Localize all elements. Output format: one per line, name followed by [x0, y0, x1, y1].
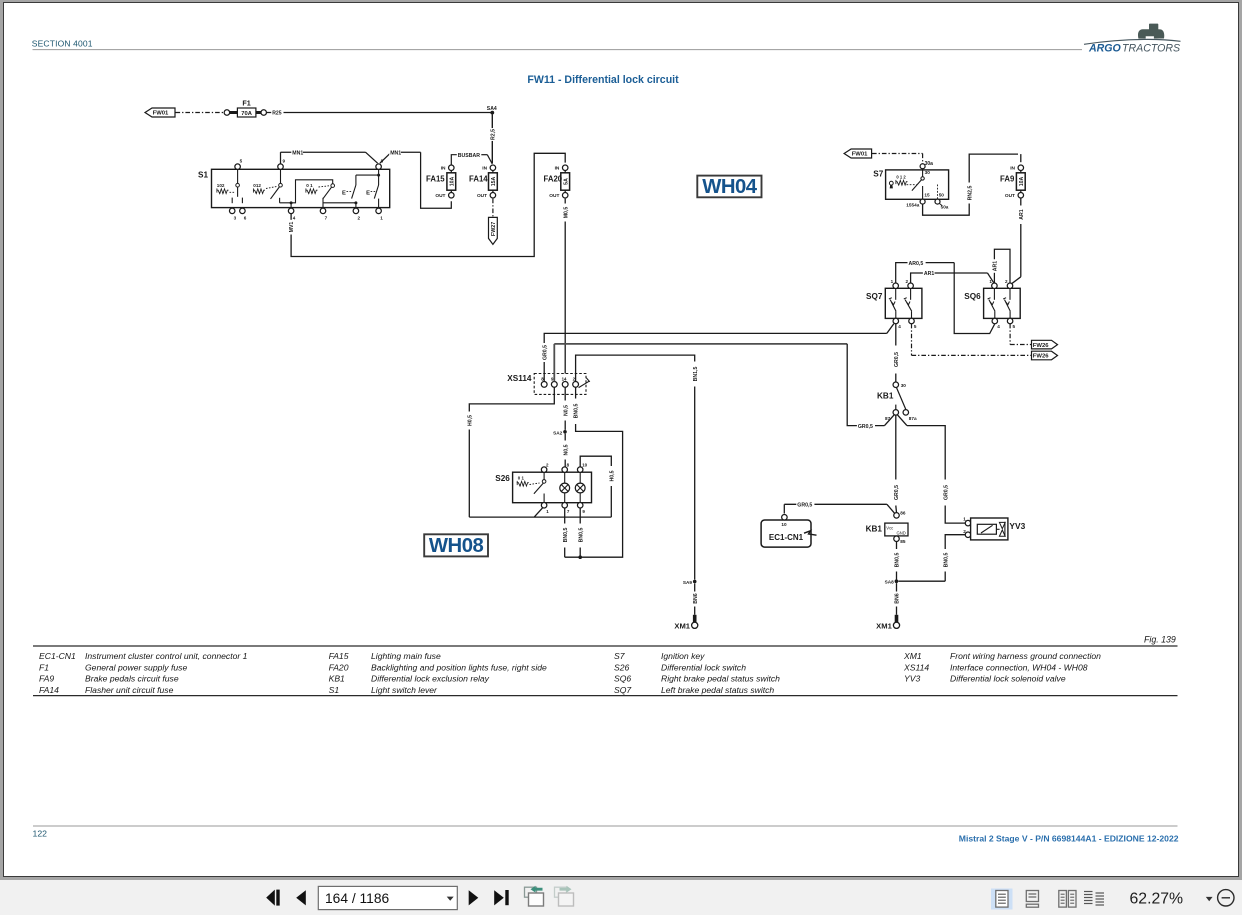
wire FA14 OUT to FW27 (dash-dot)	[492, 199, 494, 218]
XS114 pin 14	[562, 382, 568, 388]
svg-text:4: 4	[898, 324, 901, 329]
svg-text:0 1 2: 0 1 2	[896, 174, 906, 179]
node SA9	[693, 580, 697, 584]
SQ7 contact levers	[895, 289, 897, 300]
svg-text:Ignition key: Ignition key	[661, 651, 705, 661]
S1 pin 4	[288, 208, 294, 214]
wire AR0,5 SQ7 pin 1 to SQ6 pin 4	[896, 263, 955, 283]
svg-text:M0,5: M0,5	[563, 207, 569, 219]
toolbar continuous layout button	[1026, 891, 1038, 902]
svg-text:4: 4	[293, 215, 296, 220]
svg-text:OUT: OUT	[435, 193, 445, 199]
svg-text:General power supply fuse: General power supply fuse	[85, 662, 187, 672]
svg-text:BN0,5: BN0,5	[578, 528, 584, 543]
svg-text:E: E	[366, 191, 370, 197]
SQ6 contact levers	[993, 289, 995, 300]
svg-text:SECTION 4001: SECTION 4001	[32, 38, 93, 48]
svg-text:86: 86	[900, 510, 906, 515]
SQ6 pin 5	[1007, 318, 1013, 324]
relay KB1 terminal 87a	[903, 410, 909, 416]
wire BN0,5 XS114 pin 2 down to S26 lamps	[575, 387, 577, 398]
svg-text:XS114: XS114	[903, 662, 929, 672]
svg-text:S7: S7	[614, 651, 626, 661]
svg-text:SQ7: SQ7	[866, 292, 883, 301]
svg-text:1: 1	[380, 215, 383, 220]
svg-text:FA14: FA14	[469, 175, 488, 184]
svg-text:1554a: 1554a	[906, 203, 919, 208]
svg-text:70A: 70A	[241, 111, 252, 117]
svg-text:5: 5	[240, 158, 243, 163]
svg-text:Lighting main fuse: Lighting main fuse	[371, 651, 441, 661]
svg-text:YV3: YV3	[1009, 521, 1025, 531]
svg-text:3: 3	[234, 215, 237, 220]
svg-text:SA4: SA4	[487, 106, 497, 112]
SQ6 pin 1	[992, 283, 998, 289]
node SA8	[895, 579, 899, 583]
svg-text:Mistral 2 Stage V - P/N 669814: Mistral 2 Stage V - P/N 6698144A1 - EDIZ…	[959, 833, 1179, 843]
wire BN0,5 YV3 pin 2 to SA8	[898, 580, 945, 582]
connector flag FW26 lower	[1032, 351, 1058, 360]
svg-text:BN0,5: BN0,5	[574, 404, 580, 419]
svg-text:Fig. 139: Fig. 139	[1144, 634, 1176, 644]
svg-text:BN0,5: BN0,5	[943, 553, 949, 568]
svg-text:1: 1	[891, 279, 894, 284]
wire H0,5 XS114 pin 9 to S26	[469, 387, 554, 411]
svg-text:Backlighting and position ligh: Backlighting and position lights fuse, r…	[371, 662, 547, 672]
toolbar previous-view button	[525, 887, 537, 897]
fuse FA20 5A	[564, 165, 566, 173]
svg-text:GR0,5: GR0,5	[797, 503, 812, 509]
wire M0,5 from FA20 OUT to XS114 pin 14	[564, 199, 566, 204]
legend rule top	[33, 645, 1178, 647]
wire RN2,5 from S7 to FA9 IN	[923, 204, 970, 216]
svg-text:30a: 30a	[925, 161, 934, 167]
S26 pin 9	[577, 503, 583, 509]
toolbar facing layout button	[1059, 891, 1067, 908]
toolbar page number box	[318, 886, 457, 909]
svg-text:WH04: WH04	[702, 176, 758, 198]
svg-text:KB1: KB1	[877, 392, 894, 401]
svg-text:BUSBAR: BUSBAR	[458, 153, 480, 159]
SQ7 pin 5	[909, 318, 915, 324]
svg-text:5A: 5A	[563, 178, 569, 185]
svg-text:KB1: KB1	[866, 525, 883, 534]
PDF viewer bottom toolbar	[0, 880, 1242, 915]
svg-text:F1: F1	[242, 98, 250, 107]
wire MN1 from S1 pin 9 to S1 pin 8 and FA15	[281, 151, 366, 153]
svg-text:50a: 50a	[941, 205, 949, 210]
svg-text:Front wiring harness ground co: Front wiring harness ground connection	[950, 651, 1101, 661]
svg-text:10A: 10A	[449, 176, 455, 186]
S1 pin 9	[278, 164, 284, 170]
svg-text:Differential lock solenoid val: Differential lock solenoid valve	[950, 674, 1066, 684]
svg-text:2: 2	[358, 215, 361, 220]
wire MV1 from S1 pin 4	[290, 214, 292, 220]
svg-text:FW01: FW01	[852, 152, 868, 158]
svg-text:GR0,5: GR0,5	[894, 485, 900, 500]
svg-text:1: 1	[963, 517, 966, 522]
toolbar facing-continuous layout button	[1084, 891, 1093, 893]
svg-text:GR0,5: GR0,5	[858, 424, 873, 430]
svg-text:012: 012	[253, 183, 261, 188]
S26 lamp 1	[564, 472, 566, 483]
S1 internal bus from pin 8	[378, 169, 380, 175]
solenoid valve YV3	[965, 520, 971, 526]
svg-text:10: 10	[582, 462, 588, 467]
svg-text:GR0,5: GR0,5	[542, 345, 548, 360]
svg-text:FA14: FA14	[39, 685, 59, 695]
interface connector XS114	[534, 374, 586, 395]
ground XM1 right	[895, 615, 899, 622]
svg-text:IN: IN	[1010, 166, 1015, 172]
svg-text:30: 30	[925, 170, 931, 175]
svg-text:S1: S1	[329, 685, 340, 695]
svg-text:87a: 87a	[909, 416, 917, 421]
svg-text:Differential lock exclusion re: Differential lock exclusion relay	[371, 674, 490, 684]
svg-text:1: 1	[546, 509, 549, 514]
switch S1 body	[212, 169, 390, 207]
svg-text:SA9: SA9	[683, 580, 693, 585]
svg-text:FA9: FA9	[39, 674, 54, 684]
svg-text:S1: S1	[198, 170, 208, 179]
svg-text:S26: S26	[614, 662, 630, 672]
harness tag WH08	[424, 534, 488, 556]
svg-text:8: 8	[567, 462, 570, 467]
svg-text:EC1-CN1: EC1-CN1	[39, 651, 76, 661]
connector flag FW01 right	[844, 149, 872, 158]
svg-text:50: 50	[939, 192, 945, 197]
S26 pin 7	[562, 503, 568, 509]
svg-text:30: 30	[901, 383, 907, 388]
svg-text:10: 10	[781, 522, 787, 527]
XS114 switch symbol	[579, 381, 590, 387]
S26 pin 8	[562, 467, 568, 473]
toolbar last-page button	[494, 890, 504, 905]
svg-text:5: 5	[1013, 324, 1016, 329]
svg-text:GR0,5: GR0,5	[894, 352, 900, 367]
wire MN1 drop to FA15 OUT	[421, 152, 452, 208]
svg-text:YV3: YV3	[904, 674, 920, 684]
svg-text:5: 5	[914, 324, 917, 329]
wire BN0,5 KB1 85 to SA8	[896, 542, 898, 550]
wire R25	[266, 112, 271, 114]
svg-text:SA2: SA2	[553, 430, 563, 435]
relay coil KB1	[894, 513, 900, 519]
svg-text:Vcc: Vcc	[886, 525, 893, 530]
S26 lamp 2	[579, 472, 581, 483]
svg-text:FA20: FA20	[544, 175, 563, 184]
wire XS114 pin 9 riser	[553, 344, 555, 382]
relay KB1 terminal 87	[893, 410, 899, 416]
connector flag FW27 down	[489, 217, 498, 244]
svg-text:Light switch lever: Light switch lever	[371, 685, 438, 695]
svg-text:15A: 15A	[491, 176, 497, 186]
svg-text:FA15: FA15	[329, 651, 349, 661]
svg-text:4: 4	[997, 324, 1000, 329]
wire BN6 to XM1 left	[694, 583, 696, 591]
svg-text:AR0,5: AR0,5	[909, 261, 924, 267]
svg-text:N0,5: N0,5	[563, 405, 569, 416]
svg-text:F1: F1	[39, 662, 49, 672]
S26 pin 1	[541, 503, 547, 509]
wire AR1 jumper SQ6 pin 1 to pin 2	[993, 273, 995, 283]
S1 pin 3	[229, 208, 235, 214]
svg-text:OUT: OUT	[1005, 193, 1015, 199]
wire GR0,5 EC1-CN1 to KB1 86	[783, 504, 785, 513]
svg-text:H0,5: H0,5	[609, 470, 615, 481]
svg-text:S7: S7	[873, 170, 883, 179]
connector flag FW26 upper	[1032, 340, 1058, 349]
S7 terminal 30a	[920, 164, 925, 169]
Argo Tractors logo tractor icon	[1138, 24, 1164, 39]
svg-text:H0,5: H0,5	[467, 415, 473, 426]
relay KB1 terminal 30	[893, 382, 899, 388]
svg-text:2: 2	[963, 529, 966, 534]
XS114 pin 2	[573, 382, 579, 388]
svg-text:FA15: FA15	[426, 175, 445, 184]
svg-text:6: 6	[244, 215, 247, 220]
SQ6 pin 2	[1007, 283, 1013, 289]
svg-text:SQ6: SQ6	[614, 674, 631, 684]
SQ7 pin 2	[908, 283, 914, 289]
svg-text:Instrument cluster control uni: Instrument cluster control unit, connect…	[85, 651, 248, 661]
KB1 switch lever	[896, 387, 906, 409]
svg-text:10A: 10A	[1019, 176, 1025, 186]
SQ6 pin 4	[992, 318, 998, 324]
svg-text:XS114: XS114	[507, 374, 532, 383]
svg-text:Right brake pedal status switc: Right brake pedal status switch	[661, 674, 780, 684]
svg-text:IN: IN	[441, 166, 446, 172]
svg-text:FA9: FA9	[1000, 175, 1015, 184]
S1 pin 8	[376, 164, 382, 170]
wire H0,5 loop under S26	[469, 516, 611, 518]
S26 pin 2	[541, 467, 547, 473]
fuse F1 70A	[224, 110, 230, 116]
XS114 pin 8	[541, 382, 547, 388]
svg-text:15: 15	[924, 192, 930, 197]
node SA4	[490, 111, 494, 115]
S7 key symbol	[889, 181, 893, 185]
svg-text:0 1: 0 1	[518, 475, 525, 480]
wire GR0,5 KB1 87 to KB1 coil 86	[895, 415, 897, 479]
wire H0,5 right side to S26 pin 10	[580, 456, 611, 467]
svg-text:FW26: FW26	[1033, 343, 1049, 349]
svg-text:ARGO: ARGO	[1088, 42, 1122, 54]
svg-text:XM1: XM1	[876, 621, 892, 630]
S1 pin 1	[376, 208, 382, 214]
svg-text:0 1: 0 1	[306, 183, 313, 188]
wire XS114 pin 2 to ground XM1	[576, 355, 695, 381]
svg-text:8: 8	[381, 158, 384, 163]
svg-text:AR1: AR1	[924, 271, 934, 277]
wire N0,5 XS114 pin 14 to S26 pin 8	[564, 387, 566, 400]
svg-text:R25: R25	[272, 111, 282, 117]
footer rule	[33, 825, 1178, 827]
fuse FA15 10A	[450, 165, 452, 173]
svg-text:SQ7: SQ7	[614, 685, 632, 695]
svg-text:GR0,5: GR0,5	[943, 485, 949, 500]
wire AR1 SQ7 pin 2 to SQ6 pin 1	[911, 273, 988, 283]
svg-text:AR1: AR1	[1019, 209, 1025, 219]
wire FW01 to F1 (dash-dot)	[176, 112, 225, 114]
toolbar previous-page button	[296, 890, 306, 905]
svg-text:BN1,5: BN1,5	[693, 367, 699, 382]
svg-text:Flasher unit circuit fuse: Flasher unit circuit fuse	[85, 685, 174, 695]
svg-text:164 / 1186: 164 / 1186	[325, 891, 390, 906]
svg-text:SA8: SA8	[885, 580, 895, 585]
svg-text:Interface connection, WH04 - W: Interface connection, WH04 - WH08	[950, 662, 1088, 672]
fuse FA9 10A	[1020, 165, 1022, 173]
svg-text:Differential lock switch: Differential lock switch	[661, 662, 746, 672]
svg-text:FW26: FW26	[1033, 354, 1049, 360]
svg-text:FW27: FW27	[491, 222, 497, 236]
svg-text:RN2,5: RN2,5	[967, 186, 973, 201]
S1 pin 7	[320, 208, 326, 214]
toolbar next-view button (disabled)	[555, 887, 567, 897]
toolbar next-page button	[469, 890, 479, 905]
svg-text:FW11 - Differential lock circu: FW11 - Differential lock circuit	[527, 74, 679, 86]
wire R2,5 from SA4 to FA14	[491, 114, 493, 163]
wire AR1 from FA9 OUT to SQ6 pin 2	[1020, 198, 1022, 205]
svg-text:OUT: OUT	[549, 193, 559, 199]
svg-text:OUT: OUT	[477, 193, 487, 199]
legend rule bottom	[33, 695, 1178, 697]
svg-text:7: 7	[325, 215, 328, 220]
svg-text:AR1: AR1	[992, 261, 998, 271]
ignition key switch S7 body	[886, 170, 949, 199]
busbar bracket	[451, 155, 457, 166]
svg-text:9: 9	[283, 158, 286, 163]
SQ7 pin 4	[893, 318, 899, 324]
svg-text:2: 2	[1005, 279, 1008, 284]
svg-text:WH08: WH08	[429, 535, 484, 557]
S1 pin 5	[235, 164, 241, 170]
svg-text:2: 2	[906, 279, 909, 284]
svg-text:MV1: MV1	[289, 222, 295, 233]
wire BN0,5 S26 pin 9	[579, 508, 581, 524]
switch SQ7 body	[885, 288, 922, 318]
svg-text:R2,5: R2,5	[490, 129, 496, 140]
svg-text:MN1: MN1	[390, 150, 401, 156]
svg-text:SQ6: SQ6	[964, 292, 981, 301]
svg-text:EC1-CN1: EC1-CN1	[769, 533, 804, 542]
toolbar first-page button	[266, 890, 275, 906]
wire GR0,5 SQ7 pin 4 to KB1 30	[895, 324, 897, 346]
connector EC1-CN1	[761, 520, 811, 547]
svg-text:BN0,5: BN0,5	[563, 528, 569, 543]
svg-text:Brake pedals circuit fuse: Brake pedals circuit fuse	[85, 674, 179, 684]
svg-text:IN: IN	[482, 166, 487, 172]
header rule	[33, 49, 1083, 51]
svg-text:7: 7	[567, 509, 570, 514]
svg-text:MN1: MN1	[292, 150, 303, 156]
switch S26 body	[513, 472, 592, 503]
harness tag WH04	[697, 176, 761, 198]
S1 pin 6	[240, 208, 246, 214]
svg-text:Left brake pedal status switch: Left brake pedal status switch	[661, 685, 774, 695]
svg-text:IN: IN	[555, 166, 560, 172]
svg-text:BN0,5: BN0,5	[895, 553, 901, 568]
fuse FA14 15A	[492, 165, 494, 173]
svg-text:2: 2	[546, 462, 549, 467]
node SA2	[563, 430, 567, 434]
wire SQ6 pin 5 to FW26 (dash-dot)	[1009, 324, 1011, 345]
svg-text:14: 14	[562, 376, 567, 381]
svg-text:122: 122	[33, 828, 48, 838]
toolbar single-page layout button (selected)	[991, 889, 1013, 910]
svg-text:S26: S26	[495, 474, 510, 483]
S7 switch lever	[922, 169, 924, 177]
switch SQ6 body	[984, 288, 1021, 318]
svg-text:62.27%: 62.27%	[1130, 891, 1184, 908]
svg-text:N0,5: N0,5	[563, 444, 569, 455]
svg-text:GND: GND	[897, 531, 906, 536]
wire GR0,5 XS114 pin 9 to KB1 87	[554, 343, 847, 345]
wire FW01 to S7 30a (dash-dot)	[872, 153, 923, 155]
S26 pin 10	[577, 467, 583, 473]
XS114 pin 9	[551, 382, 557, 388]
svg-text:85: 85	[900, 539, 906, 544]
wire GR0,5 XS114 pin 8 to SQ7 pin 4	[543, 362, 545, 382]
svg-text:XM1: XM1	[674, 621, 690, 630]
svg-text:FA20: FA20	[329, 662, 349, 672]
connector flag FW01 left	[145, 108, 175, 117]
svg-text:XM1: XM1	[903, 651, 922, 661]
S1 pin 2	[353, 208, 359, 214]
svg-text:KB1: KB1	[329, 674, 345, 684]
svg-text:BN6: BN6	[693, 593, 699, 603]
wire GR0,5 KB1 87 to YV3 pin 1	[897, 415, 907, 426]
SQ7 pin 1	[893, 283, 899, 289]
wire BN6 to XM1 right	[896, 583, 898, 591]
svg-text:FW01: FW01	[153, 111, 169, 117]
svg-text:TRACTORS: TRACTORS	[1122, 42, 1180, 54]
svg-text:BN6: BN6	[895, 593, 901, 603]
wire SQ7 pin 5 to FW26 (dash-dot)	[911, 324, 913, 356]
EC1-CN1 pigtail	[804, 531, 817, 535]
ground XM1 left	[693, 615, 697, 622]
svg-text:102: 102	[217, 183, 225, 188]
wire BN0,5 S26 pin 7	[564, 508, 566, 524]
toolbar zoom-out button	[1218, 890, 1234, 906]
svg-text:9: 9	[582, 509, 585, 514]
svg-text:E: E	[342, 191, 346, 197]
Argo Tractors logo swoosh	[1084, 39, 1181, 44]
